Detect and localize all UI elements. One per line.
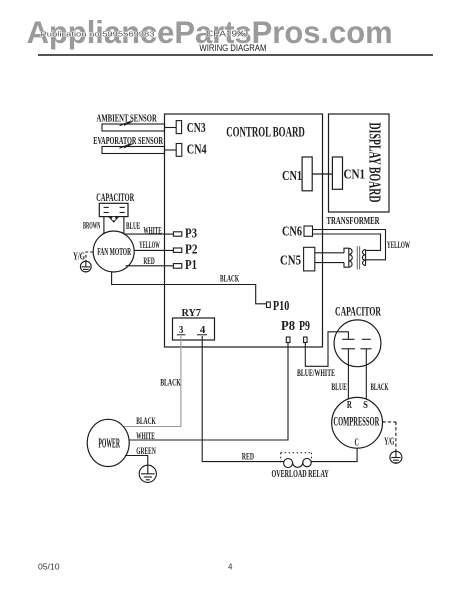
svg-text:CAPACITOR: CAPACITOR: [96, 190, 134, 204]
svg-text:CAPACITOR: CAPACITOR: [335, 304, 381, 319]
svg-text:P9: P9: [299, 319, 310, 334]
svg-text:BLACK: BLACK: [160, 378, 181, 388]
svg-text:DISPLAY BOARD: DISPLAY BOARD: [365, 123, 384, 203]
svg-text:COMPRESSOR: COMPRESSOR: [333, 414, 379, 429]
svg-text:YELLOW: YELLOW: [387, 240, 410, 250]
svg-text:P2: P2: [185, 243, 198, 258]
svg-text:Y/G: Y/G: [384, 437, 394, 448]
svg-text:BLACK: BLACK: [220, 274, 239, 284]
svg-text:OVERLOAD RELAY: OVERLOAD RELAY: [272, 469, 330, 480]
svg-text:WIRING DIAGRAM: WIRING DIAGRAM: [199, 43, 266, 53]
svg-text:GREEN: GREEN: [136, 446, 156, 456]
svg-text:POWER: POWER: [98, 437, 120, 452]
svg-text:BLUE/WHITE: BLUE/WHITE: [297, 368, 335, 378]
svg-text:CN4: CN4: [187, 143, 207, 158]
svg-text:BROWN: BROWN: [83, 220, 101, 230]
svg-text:S: S: [363, 400, 368, 411]
svg-text:P1: P1: [185, 258, 197, 273]
svg-text:BLACK: BLACK: [136, 416, 156, 426]
svg-text:CN1: CN1: [344, 168, 366, 183]
svg-text:TRANSFORMER: TRANSFORMER: [327, 215, 381, 227]
svg-text:EVAPORATOR SENSOR: EVAPORATOR SENSOR: [93, 136, 163, 147]
svg-text:CN3: CN3: [187, 121, 206, 136]
svg-text:CN5: CN5: [280, 254, 301, 269]
svg-text:BLUE: BLUE: [126, 221, 140, 231]
svg-text:CN6: CN6: [282, 225, 302, 240]
svg-text:AMBIENT SENSOR: AMBIENT SENSOR: [97, 114, 158, 125]
svg-text:4: 4: [228, 563, 233, 572]
svg-text:05/10: 05/10: [38, 563, 60, 572]
svg-text:RED: RED: [242, 451, 254, 461]
svg-text:P8: P8: [281, 319, 295, 334]
svg-text:WHITE: WHITE: [136, 431, 155, 441]
svg-text:Y/G: Y/G: [73, 252, 85, 263]
svg-text:Publication no 5995569983: Publication no 5995569983: [41, 32, 155, 39]
svg-text:YELLOW: YELLOW: [139, 240, 160, 250]
svg-text:R: R: [347, 400, 353, 411]
svg-text:RED: RED: [143, 256, 155, 266]
svg-text:RY7: RY7: [182, 307, 202, 319]
svg-text:CONTROL BOARD: CONTROL BOARD: [226, 125, 305, 141]
svg-text:FAN MOTOR: FAN MOTOR: [97, 246, 131, 258]
svg-text:CN1: CN1: [282, 169, 302, 184]
svg-text:C: C: [355, 437, 359, 448]
svg-text:CPA19XT: CPA19XT: [206, 29, 250, 39]
svg-text:BLACK: BLACK: [371, 382, 389, 392]
svg-text:BLUE: BLUE: [331, 382, 347, 392]
svg-text:P10: P10: [273, 299, 289, 314]
svg-text:P3: P3: [185, 227, 197, 242]
svg-text:WHITE: WHITE: [143, 226, 161, 236]
